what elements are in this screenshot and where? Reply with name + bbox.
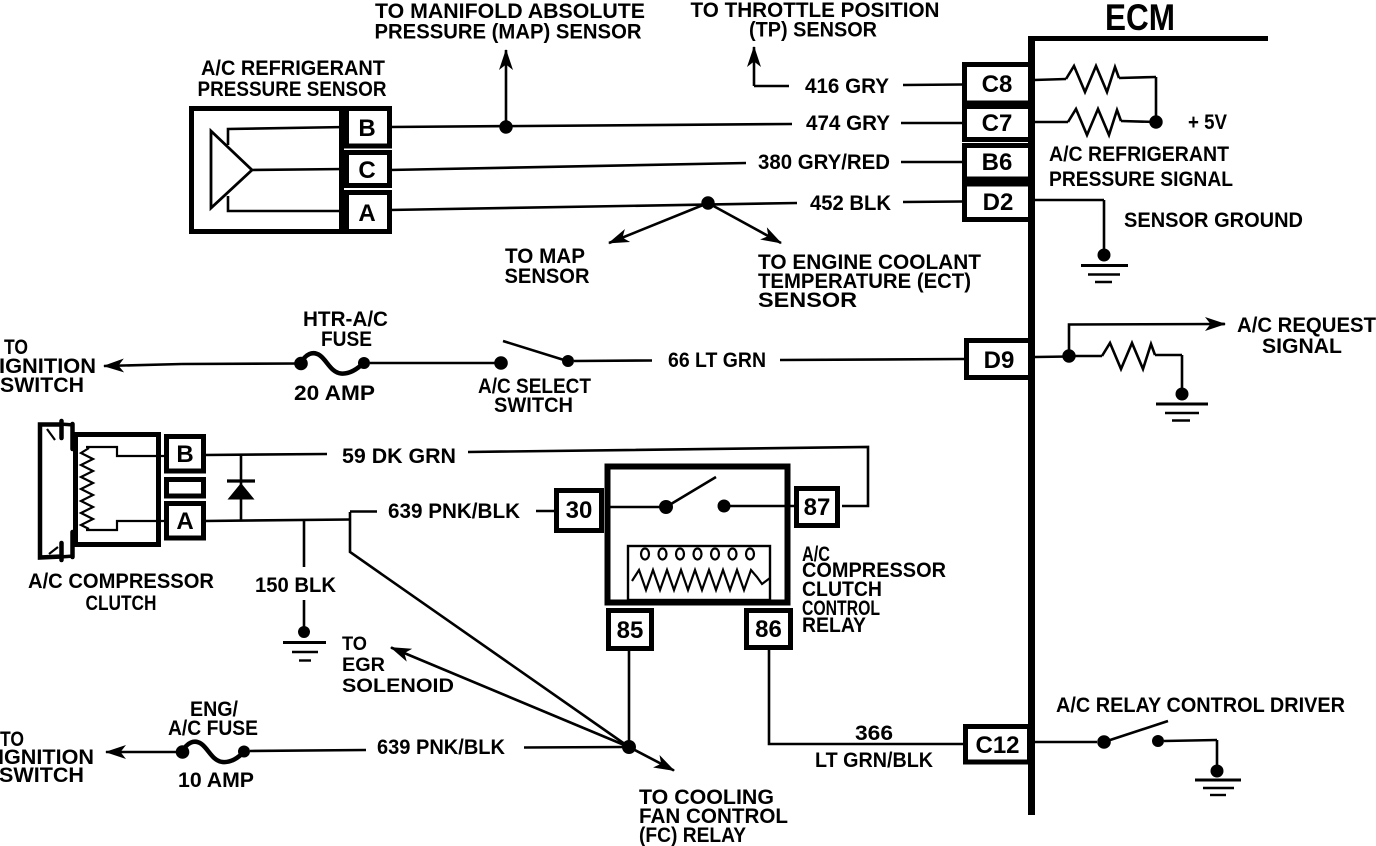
svg-text:85: 85 [617,617,644,644]
svg-text:EGR: EGR [342,655,385,676]
svg-text:474 GRY: 474 GRY [806,112,890,135]
svg-text:(FC) RELAY: (FC) RELAY [639,824,746,846]
svg-text:452 BLK: 452 BLK [810,192,891,215]
svg-text:366: 366 [855,722,893,745]
svg-text:D9: D9 [984,347,1015,374]
svg-text:59 DK GRN: 59 DK GRN [342,445,456,468]
svg-text:PRESSURE (MAP) SENSOR: PRESSURE (MAP) SENSOR [375,21,642,44]
svg-text:SWITCH: SWITCH [0,764,84,787]
svg-text:SWITCH: SWITCH [0,374,84,397]
svg-text:639 PNK/BLK: 639 PNK/BLK [377,736,505,759]
svg-text:FUSE: FUSE [321,328,372,351]
svg-text:A/C REFRIGERANT: A/C REFRIGERANT [201,57,385,80]
svg-text:SWITCH: SWITCH [494,394,573,417]
svg-text:PRESSURE SENSOR: PRESSURE SENSOR [198,78,387,101]
svg-text:A: A [358,200,375,227]
svg-text:639 PNK/BLK: 639 PNK/BLK [388,500,520,523]
svg-text:B6: B6 [982,149,1013,176]
svg-text:+ 5V: + 5V [1188,111,1227,134]
svg-text:86: 86 [755,616,782,643]
svg-text:C7: C7 [982,110,1013,137]
svg-text:SENSOR GROUND: SENSOR GROUND [1124,209,1303,232]
svg-text:380 GRY/RED: 380 GRY/RED [758,151,890,174]
svg-text:CLUTCH: CLUTCH [86,592,157,615]
svg-text:B: B [358,115,375,142]
svg-text:SENSOR: SENSOR [505,265,590,288]
svg-text:C12: C12 [975,732,1019,759]
svg-text:(TP) SENSOR: (TP) SENSOR [749,19,877,42]
svg-text:150 BLK: 150 BLK [255,574,336,597]
svg-text:SOLENOID: SOLENOID [342,676,454,697]
svg-text:RELAY: RELAY [802,614,866,637]
svg-text:10 AMP: 10 AMP [178,769,254,792]
svg-text:A/C FUSE: A/C FUSE [168,717,258,740]
svg-text:87: 87 [804,494,831,521]
svg-text:A/C REQUEST: A/C REQUEST [1237,314,1376,337]
svg-text:TO: TO [342,634,367,655]
svg-text:PRESSURE SIGNAL: PRESSURE SIGNAL [1049,168,1233,191]
svg-text:20 AMP: 20 AMP [294,382,375,405]
svg-text:30: 30 [566,497,593,524]
svg-text:A/C REFRIGERANT: A/C REFRIGERANT [1049,143,1229,166]
svg-text:A/C RELAY CONTROL DRIVER: A/C RELAY CONTROL DRIVER [1056,694,1345,717]
svg-text:D2: D2 [983,189,1014,216]
svg-text:SIGNAL: SIGNAL [1262,335,1342,358]
svg-text:LT GRN/BLK: LT GRN/BLK [815,749,933,772]
svg-text:ECM: ECM [1105,0,1175,38]
svg-text:A/C COMPRESSOR: A/C COMPRESSOR [28,570,214,593]
svg-text:416 GRY: 416 GRY [805,75,889,98]
svg-text:C8: C8 [982,71,1013,98]
svg-text:A: A [176,508,193,535]
svg-text:C: C [358,157,375,184]
svg-text:66 LT GRN: 66 LT GRN [668,349,766,372]
svg-text:SENSOR: SENSOR [758,289,857,312]
svg-text:B: B [176,441,193,468]
